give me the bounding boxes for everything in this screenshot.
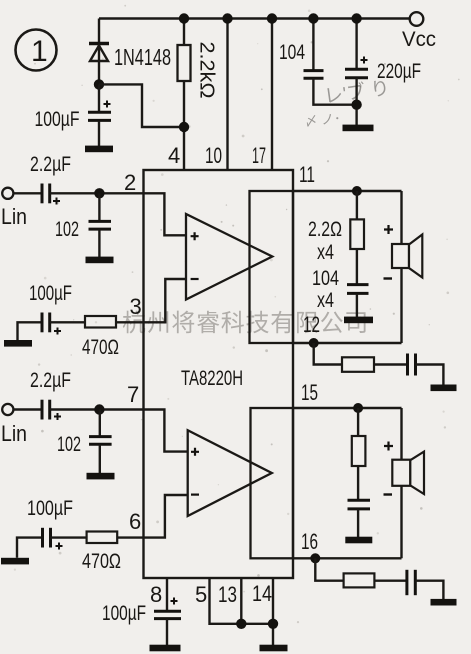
- svg-text:1N4148: 1N4148: [114, 44, 171, 70]
- svg-text:104: 104: [279, 41, 305, 64]
- svg-text:〆 ノ･: 〆 ノ･: [304, 111, 341, 129]
- svg-text:14: 14: [252, 581, 272, 606]
- svg-text:102: 102: [57, 433, 81, 456]
- capacitor C10 104: [312, 249, 369, 317]
- wire pin6 internal: [144, 495, 188, 538]
- node rail pin10: [222, 13, 232, 23]
- capacitor C9 100uF: [17, 497, 73, 558]
- wire pin2 internal: [144, 193, 186, 235]
- svg-text:2.2kΩ: 2.2kΩ: [196, 42, 218, 99]
- resistor R7 snubber: [315, 558, 406, 587]
- wire speaker 1: [400, 191, 402, 343]
- wire speaker 2: [400, 408, 402, 558]
- wire pin 14: [272, 578, 274, 645]
- capacitor C8 102: [57, 410, 112, 475]
- wire pin 11: [293, 190, 402, 192]
- wire Vcc rail: [99, 17, 410, 19]
- svg-text:220µF: 220µF: [377, 60, 421, 83]
- node pin14: [268, 619, 278, 629]
- op-amp A1: [186, 214, 272, 300]
- output stage box 2: [251, 408, 294, 558]
- node R1 bottom: [179, 122, 189, 132]
- svg-text:100µF: 100µF: [27, 497, 73, 520]
- wire pin17: [271, 19, 273, 171]
- ground: [85, 146, 113, 153]
- wire to pin 7: [50, 408, 144, 410]
- capacitor C7 2.2uF: [13, 369, 71, 420]
- ground: [343, 125, 374, 132]
- svg-text:2: 2: [124, 170, 136, 195]
- wire pin3 internal: [144, 279, 186, 322]
- node rail C2: [308, 13, 318, 23]
- op-amp A2: [188, 430, 272, 516]
- ground: [431, 599, 457, 606]
- svg-text:470Ω: 470Ω: [82, 550, 121, 573]
- svg-text:13: 13: [218, 582, 237, 607]
- wire to pin 2: [50, 192, 144, 194]
- diode D1 1N4148: [89, 44, 171, 71]
- wire pin7 internal: [144, 410, 188, 452]
- wire diode branch: [98, 19, 100, 85]
- ground: [86, 257, 114, 264]
- wire junction to resistor bottom: [99, 84, 184, 127]
- wire pin10: [226, 19, 228, 171]
- node input 1: [94, 188, 104, 198]
- svg-text:15: 15: [301, 380, 318, 405]
- svg-text:10: 10: [205, 143, 222, 168]
- svg-text:x4: x4: [317, 241, 334, 264]
- svg-text:4: 4: [168, 143, 180, 168]
- capacitor C3 220uF: [345, 19, 421, 126]
- svg-text:100µF: 100µF: [102, 602, 146, 625]
- terminal Lin 1: [1, 188, 27, 229]
- op-amp U1 TA8220H box: [144, 170, 294, 578]
- ground: [431, 385, 457, 392]
- svg-text:470Ω: 470Ω: [82, 336, 119, 359]
- svg-text:16: 16: [301, 529, 318, 554]
- capacitor C13 snubber: [407, 570, 444, 600]
- resistor R2 470: [50, 316, 144, 359]
- svg-text:5: 5: [195, 582, 207, 607]
- svg-text:100µF: 100µF: [29, 282, 72, 305]
- ground: [345, 537, 372, 544]
- node rail C3: [351, 13, 361, 23]
- ground: [87, 473, 115, 480]
- capacitor C1 100uF: [35, 84, 112, 146]
- scan smudges: [304, 76, 391, 129]
- svg-text:12: 12: [303, 312, 320, 337]
- capacitor C11 snubber: [408, 354, 444, 385]
- svg-text:3: 3: [130, 294, 142, 319]
- resistor R4 2.2: [308, 191, 364, 264]
- node pin15 zobel: [353, 403, 363, 413]
- wire pin 5: [210, 578, 274, 624]
- svg-text:17: 17: [252, 143, 266, 168]
- ground: [150, 645, 181, 652]
- svg-text:Lin: Lin: [1, 421, 27, 446]
- ground: [1, 558, 29, 565]
- ground: [4, 340, 32, 347]
- node rail pin17: [267, 13, 277, 23]
- svg-text:1: 1: [31, 35, 48, 68]
- wire pin 13: [240, 578, 242, 624]
- resistor R1 2.2k: [178, 19, 218, 171]
- svg-text:102: 102: [55, 218, 79, 241]
- capacitor C12 104: [348, 466, 371, 537]
- wire pin 12: [293, 342, 402, 344]
- figure number badge: [16, 30, 57, 71]
- wire pin 15: [293, 407, 402, 409]
- resistor R3 470: [51, 532, 144, 574]
- output stage box 1: [250, 191, 294, 343]
- node rail R1: [179, 13, 189, 23]
- capacitor C6 100uF: [18, 282, 73, 340]
- wire pin 16: [293, 557, 402, 559]
- node pin16 snubber: [310, 553, 320, 563]
- svg-text:Lin: Lin: [1, 204, 27, 229]
- capacitor C2 104: [279, 19, 357, 105]
- node C2 C3: [351, 100, 361, 110]
- svg-text:100µF: 100µF: [35, 108, 80, 131]
- svg-text:8: 8: [150, 582, 162, 607]
- resistor R6 2.2: [352, 408, 366, 466]
- node input 2: [94, 404, 104, 414]
- svg-text:6: 6: [129, 509, 141, 534]
- capacitor C14 100uF: [102, 578, 181, 646]
- ground: [344, 317, 373, 324]
- svg-text:x4: x4: [317, 289, 334, 312]
- svg-text:104: 104: [312, 267, 339, 290]
- ground: [260, 645, 288, 652]
- svg-text:2.2µF: 2.2µF: [30, 369, 71, 392]
- svg-text:11: 11: [299, 162, 315, 187]
- svg-text:Vcc: Vcc: [402, 28, 436, 51]
- node diode junction: [94, 79, 104, 89]
- speaker LS2: [384, 442, 425, 495]
- terminal Lin 2: [1, 404, 27, 446]
- terminal Vcc: [402, 12, 436, 51]
- svg-text:2.2µF: 2.2µF: [30, 153, 71, 176]
- capacitor C5 102: [55, 193, 111, 257]
- resistor R5 snubber: [314, 343, 407, 372]
- capacitor C4 2.2uF: [13, 153, 71, 205]
- svg-text:7: 7: [127, 382, 139, 407]
- speaker LS1: [384, 225, 423, 279]
- node pin12 snubber: [309, 338, 319, 348]
- svg-text:TA8220H: TA8220H: [181, 367, 243, 390]
- node pin13: [236, 619, 246, 629]
- svg-text:2.2Ω: 2.2Ω: [308, 218, 342, 241]
- node pin11 zobel: [352, 186, 362, 196]
